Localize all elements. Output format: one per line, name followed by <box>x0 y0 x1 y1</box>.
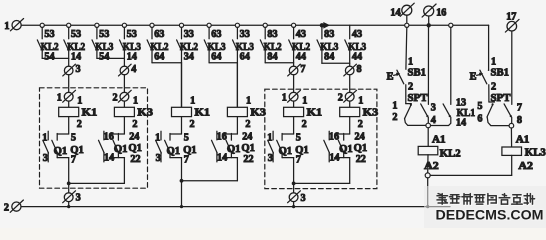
dashed enclosure box 2 (connector unit 2) <box>265 89 377 188</box>
svg-text:14: 14 <box>456 117 466 128</box>
contact KL2 53-14 (col2) <box>68 27 70 38</box>
wire terminal 14 down <box>406 15 408 23</box>
terminal 4 (below col4) <box>120 66 129 75</box>
wire col8 down to K3 coil <box>236 63 238 108</box>
svg-text:1: 1 <box>267 132 272 143</box>
svg-text:5: 5 <box>477 101 482 112</box>
svg-text:Q1: Q1 <box>227 144 241 155</box>
svg-text:1: 1 <box>392 100 397 111</box>
svg-text:3: 3 <box>156 153 161 164</box>
svg-text:7: 7 <box>517 102 522 113</box>
wire bus line 2 <box>22 206 450 208</box>
contact KL3 83-84 (col11) <box>321 25 323 39</box>
svg-text:1: 1 <box>358 96 363 107</box>
svg-text:Q1: Q1 <box>339 144 353 155</box>
svg-text:83: 83 <box>267 29 277 40</box>
node col2 on bus 1 <box>67 23 71 27</box>
svg-text:14: 14 <box>104 152 114 163</box>
node junction to KL2 coil <box>426 123 431 128</box>
svg-text:3: 3 <box>43 153 48 164</box>
wire <box>293 75 295 93</box>
svg-text:K3: K3 <box>137 107 153 119</box>
svg-text:1: 1 <box>155 132 160 143</box>
contact pole 3-4 <box>427 27 429 104</box>
contact pole 5-6 <box>489 101 495 103</box>
svg-text:Q1: Q1 <box>54 146 67 157</box>
contact KL2 53-54 (col1) <box>41 27 43 38</box>
wire coil K3 group 1 to Q1 <box>123 117 125 134</box>
pushbutton SB1 SPT (right) <box>487 69 489 71</box>
svg-text:7: 7 <box>296 155 301 166</box>
svg-text:14: 14 <box>71 51 81 62</box>
svg-text:2: 2 <box>113 92 118 103</box>
contact KL3 33-64 (col8) <box>236 27 238 38</box>
svg-text:24: 24 <box>242 132 252 143</box>
svg-text:K1: K1 <box>195 107 211 119</box>
svg-text:3: 3 <box>301 193 306 204</box>
svg-text:54: 54 <box>44 51 54 62</box>
terminal 3 (below box 1) <box>64 193 73 202</box>
terminal 3 (below box 2) <box>289 193 298 202</box>
auxiliary contact Q1 (K1 branch group 3) <box>282 133 294 135</box>
wire coil K1 group 1 to Q1 <box>68 117 70 134</box>
terminal 8 (below col12) <box>345 66 354 75</box>
wire group 2 join <box>181 158 183 207</box>
svg-text:16: 16 <box>436 7 446 18</box>
svg-text:22: 22 <box>243 154 253 165</box>
svg-text:33: 33 <box>184 29 194 40</box>
contact KL3 63-64 (col7) <box>208 27 210 38</box>
relay coil KL2 <box>427 128 429 147</box>
svg-text:E: E <box>387 72 394 83</box>
svg-text:KL2: KL2 <box>440 148 461 160</box>
svg-text:1: 1 <box>133 96 138 107</box>
wire join col1-col2 <box>41 51 43 58</box>
node col5 on bus 1 <box>150 23 154 27</box>
wire coil K3 group 2 to Q1 <box>236 117 238 134</box>
svg-text:7: 7 <box>184 155 189 166</box>
svg-text:4: 4 <box>131 64 136 75</box>
node col6 on bus 1 <box>179 23 183 27</box>
svg-text:24: 24 <box>355 132 365 143</box>
wire join col9-col10 <box>264 51 266 62</box>
wire join col5-col6 <box>151 51 153 62</box>
auxiliary contact Q1 (K3 branch group 2) <box>222 133 237 135</box>
node col8 on bus 1 <box>235 23 239 27</box>
wire group 1 K1 branch down <box>68 158 70 193</box>
svg-text:84: 84 <box>324 51 334 62</box>
svg-text:A2: A2 <box>518 161 533 172</box>
svg-text:A1: A1 <box>432 135 446 146</box>
svg-text:2: 2 <box>190 119 195 130</box>
svg-text:43: 43 <box>352 29 362 40</box>
svg-text:17: 17 <box>506 11 516 22</box>
terminal 1 (inside box, K1 branch group 1) <box>64 92 73 101</box>
svg-text:4: 4 <box>431 115 436 126</box>
svg-text:53: 53 <box>44 29 54 40</box>
wire <box>123 75 125 93</box>
svg-text:Q1: Q1 <box>167 146 181 157</box>
svg-text:Q1: Q1 <box>241 143 255 154</box>
terminal 3 (below col2) <box>64 66 73 75</box>
svg-text:7: 7 <box>300 64 305 75</box>
svg-text:K1: K1 <box>307 107 323 119</box>
wire terminal 17 down to contact 7-8 <box>511 31 513 104</box>
node col7 on bus 1 <box>207 23 211 27</box>
svg-text:2: 2 <box>338 92 343 103</box>
wire group 3 K3 branch join <box>349 158 351 184</box>
svg-text:2: 2 <box>77 119 82 130</box>
relay coil KL3 <box>510 128 512 147</box>
svg-text:8: 8 <box>517 115 522 126</box>
svg-text:53: 53 <box>127 29 137 40</box>
svg-text:3: 3 <box>76 64 81 75</box>
terminal 2 (inside box, K3 branch group 3) <box>345 92 354 101</box>
svg-text:2: 2 <box>132 119 137 130</box>
contact KL1 13-14 <box>450 27 452 104</box>
auxiliary contact Q1 (K3 branch group 1) <box>109 133 124 135</box>
node col11 on bus 1 <box>320 23 324 27</box>
svg-text:SB1: SB1 <box>408 67 427 79</box>
wire <box>293 101 295 107</box>
wire to bus 2 <box>68 202 70 207</box>
svg-text:83: 83 <box>324 29 334 40</box>
svg-text:3: 3 <box>76 193 81 204</box>
wire coil K1 group 3 to Q1 <box>293 117 295 134</box>
wire KL2 to bus 2 <box>427 178 429 207</box>
svg-text:14: 14 <box>127 51 137 62</box>
wire <box>349 101 351 107</box>
terminal 2 (inside box, K3 branch group 1) <box>120 92 129 101</box>
svg-text:8: 8 <box>357 64 362 75</box>
svg-text:K3: K3 <box>363 107 379 119</box>
contact KL2 33-34 (col6) <box>181 27 183 38</box>
wire join col11-col12 <box>321 51 323 63</box>
svg-text:A1: A1 <box>516 135 530 146</box>
svg-text:1: 1 <box>190 96 195 107</box>
wire group 1 K3 branch join <box>123 158 125 184</box>
svg-text:Q1: Q1 <box>295 145 309 156</box>
svg-text:63: 63 <box>211 29 221 40</box>
svg-text:E: E <box>470 72 477 83</box>
svg-text:SPT: SPT <box>408 92 429 104</box>
svg-text:1: 1 <box>302 96 307 107</box>
svg-text:6: 6 <box>477 113 482 124</box>
svg-text:7: 7 <box>71 155 76 166</box>
watermark CJK line (drawn glyphs) <box>437 194 535 205</box>
auxiliary contact Q1 (K1 branch group 1) <box>57 133 68 135</box>
svg-text:2: 2 <box>491 81 496 92</box>
svg-text:53: 53 <box>99 29 109 40</box>
svg-text:A2: A2 <box>424 161 439 172</box>
node col10 on bus 1 <box>292 23 296 27</box>
wire coil K3 group 3 to Q1 <box>349 117 351 134</box>
svg-text:1: 1 <box>57 92 62 103</box>
contact KL2 43-44 (col10) <box>293 27 295 38</box>
svg-text:DEDECMS.COM: DEDECMS.COM <box>436 207 544 223</box>
svg-text:Q1: Q1 <box>183 145 197 156</box>
svg-text:1: 1 <box>282 92 287 103</box>
terminal 16 <box>424 6 434 16</box>
svg-text:Q1: Q1 <box>354 143 368 154</box>
node col3 on bus 1 <box>95 23 99 27</box>
contact KL3 53-54 (col3) <box>96 27 98 38</box>
watermark background <box>424 186 546 228</box>
svg-text:1: 1 <box>4 21 9 32</box>
svg-text:16: 16 <box>104 132 114 143</box>
svg-text:14: 14 <box>217 152 227 163</box>
svg-text:KL3: KL3 <box>525 147 546 159</box>
svg-text:2: 2 <box>245 119 250 130</box>
svg-text:44: 44 <box>352 51 362 62</box>
auxiliary contact Q1 (K1 branch group 2) <box>170 133 182 135</box>
svg-text:1: 1 <box>77 96 82 107</box>
svg-text:54: 54 <box>99 51 109 62</box>
svg-text:14: 14 <box>390 7 400 18</box>
svg-text:3: 3 <box>268 153 273 164</box>
svg-text:K3: K3 <box>250 107 266 119</box>
svg-text:44: 44 <box>296 51 306 62</box>
svg-text:64: 64 <box>211 51 221 62</box>
svg-text:5: 5 <box>71 132 76 143</box>
svg-text:64: 64 <box>240 51 250 62</box>
svg-text:63: 63 <box>154 29 164 40</box>
svg-text:16: 16 <box>329 132 339 143</box>
pushbutton SB1 SPT (left) <box>405 27 408 69</box>
contact KL3 43-44 (col12) <box>349 25 351 39</box>
svg-text:22: 22 <box>356 154 366 165</box>
wire to bus 2 <box>293 202 295 207</box>
wire <box>349 75 351 93</box>
svg-text:24: 24 <box>129 132 139 143</box>
wire KL2-KL3 bottom link <box>430 174 512 176</box>
svg-text:Q1: Q1 <box>128 143 142 154</box>
wire bus line 1 <box>22 24 489 26</box>
wire join col3-col4 <box>96 51 98 58</box>
dashed enclosure box 1 (connector unit 1) <box>40 88 148 188</box>
svg-text:33: 33 <box>240 29 250 40</box>
svg-text:K1: K1 <box>82 107 98 119</box>
wire <box>68 75 70 93</box>
terminal 7 (below col10) <box>289 66 298 75</box>
contact KL3 53-14 (col4) <box>123 27 125 38</box>
wire terminal 16 down <box>428 16 430 25</box>
contact pole 1-2 (left SB1) <box>406 103 412 105</box>
svg-text:2: 2 <box>408 81 413 92</box>
node col9 on bus 1 <box>263 23 267 27</box>
wire bus 1 corner drop to SB1 right <box>488 25 490 70</box>
contact KL2 63-64 (col5) <box>151 27 153 38</box>
auxiliary contact Q1 (K3 branch group 3) <box>335 133 350 135</box>
svg-text:2: 2 <box>302 119 307 130</box>
node KL1 branch tap <box>449 23 453 27</box>
wire join col7-col8 <box>208 51 210 62</box>
contact pole 7-8 <box>504 104 511 116</box>
wire group 3 K1 branch down <box>293 158 295 193</box>
svg-text:5: 5 <box>184 132 189 143</box>
node col1 on bus 1 <box>40 23 44 27</box>
svg-text:5: 5 <box>296 132 301 143</box>
svg-text:84: 84 <box>267 51 277 62</box>
svg-text:13: 13 <box>456 98 466 109</box>
svg-text:43: 43 <box>296 29 306 40</box>
node below KL2 <box>425 173 430 178</box>
node under 14 <box>405 23 409 27</box>
svg-text:22: 22 <box>130 154 140 165</box>
node col4 on bus 1 <box>122 23 126 27</box>
svg-text:2: 2 <box>358 119 363 130</box>
svg-text:14: 14 <box>329 152 339 163</box>
wire <box>68 101 70 107</box>
svg-text:SB1: SB1 <box>491 67 510 79</box>
svg-text:Q1: Q1 <box>279 146 293 157</box>
node under 16 <box>427 23 431 27</box>
svg-text:1: 1 <box>42 132 47 143</box>
svg-text:53: 53 <box>71 29 81 40</box>
svg-text:16: 16 <box>217 132 227 143</box>
svg-text:1: 1 <box>246 96 251 107</box>
node junction to KL3 coil <box>509 123 514 128</box>
svg-text:34: 34 <box>184 51 194 62</box>
wire col6 down to K1 coil <box>181 63 183 108</box>
svg-text:Q1: Q1 <box>70 145 84 156</box>
contact KL2 83-84 (col9) <box>264 27 266 38</box>
svg-text:2: 2 <box>4 203 9 214</box>
svg-text:3: 3 <box>431 102 436 113</box>
svg-text:2: 2 <box>392 112 397 123</box>
svg-text:64: 64 <box>154 51 164 62</box>
wire coil K1 group 2 to Q1 <box>181 117 183 134</box>
terminal 1 (inside box, K1 branch group 3) <box>289 92 298 101</box>
svg-text:Q1: Q1 <box>114 144 128 155</box>
wire <box>123 101 125 107</box>
